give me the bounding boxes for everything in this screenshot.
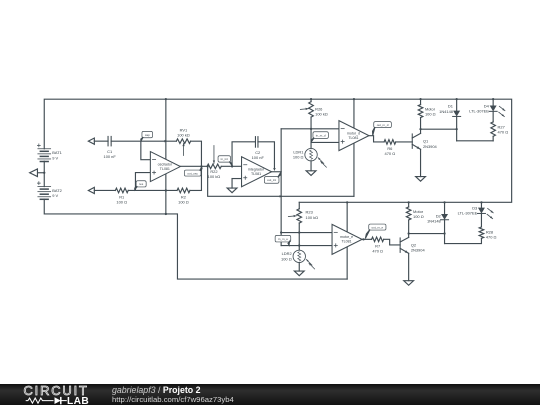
svg-text:100 nF: 100 nF (252, 155, 265, 160)
battery BAT1 9V (38, 148, 51, 150)
wire cap branch to minus input (141, 141, 151, 160)
svg-text:100 Ω: 100 Ω (116, 200, 127, 205)
wire collector to D1 (421, 128, 457, 130)
node Q2 collector junction (408, 232, 410, 234)
svg-text:out_m_d: out_m_d (377, 123, 389, 127)
node riser minus junction (280, 231, 282, 233)
diode D2 1N4148 (444, 202, 446, 214)
wire motor_d V+/V- rail (353, 99, 355, 196)
potentiometer R26 100k (309, 102, 314, 118)
photoresistor LDR1 100 (305, 148, 317, 160)
net flag out_osc (184, 170, 201, 176)
wire R6 to Q1 base (396, 141, 413, 143)
logo resistor zigzag (26, 398, 54, 403)
node D2 top (443, 201, 445, 203)
node D4 top (492, 98, 494, 100)
svg-text:in_m_d: in_m_d (316, 133, 326, 137)
node Motor1 top (419, 98, 421, 100)
svg-text:1N4148: 1N4148 (439, 109, 454, 114)
node cap junction arrow (164, 140, 167, 143)
wire integrator plus to gnd (232, 178, 242, 180)
node motor_e out junction (362, 238, 364, 240)
ground Q1 (416, 177, 426, 182)
svg-text:BAT1: BAT1 (52, 150, 62, 155)
resistor R28 470 (479, 227, 484, 238)
svg-text:oscilador: oscilador (158, 162, 173, 166)
net flag in_m_d (313, 132, 328, 139)
resistor R27 470 (491, 122, 496, 136)
wire motor_e minus (281, 232, 333, 234)
led D3 LTL-307EE (480, 202, 482, 207)
node osc rail top (165, 98, 167, 100)
resistor R6 470 (384, 140, 396, 145)
led D4 LTL-307EE (492, 99, 494, 105)
node Motor2 top (408, 201, 410, 203)
svg-text:100 kΩ: 100 kΩ (315, 112, 328, 117)
node D1 top (456, 98, 458, 100)
wire R26 top lead (310, 99, 312, 102)
svg-text:100 Ω: 100 Ω (178, 200, 189, 205)
svg-text:motor_e: motor_e (340, 235, 353, 239)
svg-text:100 Ω: 100 Ω (413, 214, 424, 219)
wire motor_e V+/V- rail (346, 202, 348, 279)
ground LDR1 (306, 171, 316, 176)
svg-text:100 kΩ: 100 kΩ (306, 215, 319, 220)
svg-text:100 kΩ: 100 kΩ (208, 174, 221, 179)
svg-text:LTL-307EE: LTL-307EE (469, 109, 489, 114)
wire motor_e output (362, 238, 372, 240)
resistor R1 100 (115, 188, 128, 193)
wire R2 to out node (190, 189, 202, 191)
wire battery midpoint (43, 161, 45, 186)
node Q1 collector junction (419, 128, 421, 130)
wire RV1 right down to out (191, 141, 202, 190)
svg-text:integrador: integrador (248, 168, 265, 172)
ground LDR2 (294, 271, 304, 276)
svg-text:TL081: TL081 (251, 172, 261, 176)
svg-text:TL081: TL081 (341, 240, 351, 244)
svg-text:TL081: TL081 (160, 167, 170, 171)
svg-text:in_m_e: in_m_e (278, 237, 288, 241)
net flag out_m_d (374, 122, 392, 128)
potentiometer R22 100k (207, 164, 221, 169)
svg-text:res: res (139, 182, 144, 186)
svg-text:out_int: out_int (267, 178, 276, 182)
wire BAT2- to bottom rail (44, 199, 347, 279)
photoresistor LDR2 100 (293, 250, 305, 262)
wire LDR2 to gnd (298, 263, 300, 272)
svg-text:100 kΩ: 100 kΩ (177, 132, 190, 137)
potentiometer R23 100k (298, 202, 300, 208)
net flag in_int (218, 156, 230, 162)
node D2 collector junction (443, 232, 445, 234)
wire Q2 emitter (408, 253, 410, 280)
wire R1 to R2 (128, 189, 177, 191)
node out_int to out_osc arrow (280, 195, 283, 197)
node D3 top (480, 201, 482, 203)
svg-text:470 Ω: 470 Ω (385, 151, 396, 156)
resistor Motor left 100 (408, 202, 410, 207)
wire Q1 collector (420, 118, 422, 134)
node R22 left junction (207, 165, 209, 167)
svg-text:9 V: 9 V (52, 155, 58, 160)
transistor Q1 2N3904 (411, 134, 413, 148)
wire Q2 collector (408, 221, 410, 238)
wire motor_d minus (281, 128, 339, 130)
wire osc output (180, 165, 207, 167)
wire out_osc drop (208, 166, 354, 196)
svg-text:BAT2: BAT2 (52, 188, 62, 193)
svg-text:out_m_e: out_m_e (372, 225, 384, 229)
ground integrator (227, 188, 237, 193)
diode D1 1N4148 (456, 99, 458, 111)
node C2 arrow (273, 168, 276, 171)
net flag cap (142, 131, 153, 137)
node D1 collector junction (456, 128, 458, 130)
op-amp U1 oscilador (150, 152, 180, 182)
wire +9V top rail / right edge / lower +9V rail (44, 99, 511, 202)
svg-text:LAB: LAB (67, 396, 89, 405)
wire LDR1 to gnd (310, 161, 312, 171)
wire collector2 to D2 (409, 233, 445, 235)
wire port to R1 (94, 189, 115, 191)
resistor R7 470 (372, 237, 384, 242)
node out_osc junction (200, 165, 202, 167)
node in_m_d divider junction (310, 128, 312, 130)
node in_m_e junction (298, 231, 300, 233)
ground Q2 (404, 281, 414, 286)
capacitor C1 100nF (107, 136, 109, 145)
svg-text:cap: cap (145, 133, 150, 137)
node V- osc rail junction (165, 213, 167, 215)
svg-text:2N3904: 2N3904 (411, 247, 426, 252)
node C2 branch junction (231, 165, 233, 167)
svg-text:LTL-307EE: LTL-307EE (458, 211, 478, 216)
op-amp U3 motor_d (339, 121, 369, 151)
svg-text:in_int: in_int (221, 157, 228, 161)
net flag res (136, 181, 146, 187)
svg-text:100 Ω: 100 Ω (281, 256, 292, 261)
svg-text:100 nF: 100 nF (104, 154, 117, 159)
svg-text:motor_d: motor_d (347, 131, 360, 135)
net flag out_int (264, 177, 279, 184)
svg-text:470 Ω: 470 Ω (372, 249, 383, 254)
net flag out_m_e (369, 224, 386, 230)
node battery mid junction (43, 172, 45, 174)
wire D3 to R28 (480, 213, 482, 227)
wire C1 to RV1 (111, 140, 176, 142)
logo diode (55, 397, 61, 404)
svg-text:2N3904: 2N3904 (423, 144, 438, 149)
port flag battery mid (30, 169, 38, 177)
node R1R2 rail junction (165, 189, 167, 191)
wire motor_d plus (311, 141, 339, 143)
wire port to C1 (94, 140, 108, 142)
net flag in_m_e (275, 235, 291, 242)
svg-text:100 Ω: 100 Ω (425, 112, 436, 117)
wire D4 to R27 (492, 111, 494, 122)
wire out_int riser (280, 129, 282, 246)
transistor Q2 2N3904 (399, 238, 401, 252)
wire R22 to integrator minus (221, 165, 241, 167)
svg-text:9 V: 9 V (52, 193, 58, 198)
port flag res input (88, 187, 94, 193)
node R26 top (310, 98, 312, 100)
op-amp U4 motor_e (332, 224, 362, 254)
node LDR2 plus junction (298, 244, 300, 246)
wire R26 to LDR1 (310, 117, 312, 148)
wire D2 bottom to R28 (445, 238, 482, 243)
node motor_e rail top (346, 201, 348, 203)
wire res branch to plus input (135, 173, 150, 191)
wire C2 feedback (232, 142, 255, 167)
svg-text:470 Ω: 470 Ω (498, 129, 509, 134)
node motor_d rail top (353, 98, 355, 100)
wire integrator output (272, 171, 282, 173)
potentiometer RV1 100k (176, 139, 190, 144)
resistor R2 100 (177, 188, 190, 193)
wire Q1 emitter (420, 149, 422, 176)
wire motor_d output jog (369, 136, 384, 142)
port flag cap input (88, 138, 94, 144)
svg-text:100 Ω: 100 Ω (293, 155, 304, 160)
wire motor_e plus (281, 245, 333, 247)
svg-text:470 Ω: 470 Ω (486, 234, 497, 239)
battery BAT2 9V (38, 186, 51, 188)
wire oscillator V+/V- rail (165, 99, 167, 214)
svg-text:1N4148: 1N4148 (427, 219, 442, 224)
svg-text:out_osc: out_osc (187, 171, 198, 175)
wire R23 to LDR2 (298, 223, 300, 250)
op-amp U2 integrador (242, 157, 272, 187)
capacitor C2 100nF (254, 137, 256, 148)
resistor Motor right 100 (420, 99, 422, 104)
svg-text:TL081: TL081 (348, 136, 358, 140)
wire R7 to Q2 base (384, 239, 401, 245)
wire D1 bottom to R27 (457, 140, 494, 142)
